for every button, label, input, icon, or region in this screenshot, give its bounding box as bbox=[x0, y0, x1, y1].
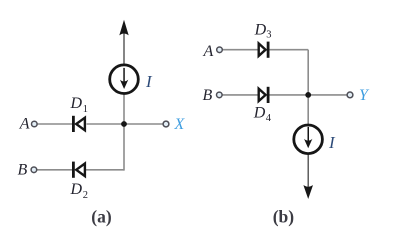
svg-text:(a): (a) bbox=[91, 206, 112, 226]
wire: diode D1 to node, node to output X (a) bbox=[87, 123, 164, 125]
diode D2 bbox=[73, 162, 85, 178]
wire: input A (a) to diode D1 bbox=[37, 123, 72, 125]
svg-text:D: D bbox=[253, 105, 266, 122]
wire: diode D4 to node, node to output Y (b) bbox=[269, 94, 347, 96]
svg-text:2: 2 bbox=[83, 190, 88, 201]
wire: vertical from top arrow down to current source (a) bbox=[123, 32, 125, 65]
diode D3 bbox=[259, 42, 268, 58]
wire: vertical from current source through node X down to B branch corner (a) bbox=[123, 94, 125, 171]
svg-text:1: 1 bbox=[83, 104, 88, 115]
wire: input B (a) to diode D2 bbox=[37, 169, 73, 171]
svg-text:D: D bbox=[254, 22, 267, 39]
svg-text:A: A bbox=[19, 116, 30, 133]
svg-text:3: 3 bbox=[266, 30, 271, 41]
current source I (a) internal arrow bbox=[120, 68, 128, 89]
terminal B (b) bbox=[217, 92, 223, 98]
wire: diode D2 to corner below node (a) bbox=[86, 169, 125, 171]
diode D1 bbox=[73, 116, 85, 132]
arrow to negative supply (b) bbox=[303, 185, 313, 199]
terminal B (a) bbox=[31, 167, 37, 173]
wire: diode D3 to corner (b) bbox=[269, 49, 308, 51]
svg-text:(b): (b) bbox=[273, 206, 295, 226]
node at Y junction (b) bbox=[305, 92, 311, 98]
current source I (a) bbox=[110, 65, 139, 94]
svg-text:B: B bbox=[18, 161, 28, 178]
node at X junction (a) bbox=[121, 121, 127, 127]
terminal A (b) bbox=[217, 47, 223, 53]
svg-text:4: 4 bbox=[266, 113, 272, 124]
wire: input B (b) to diode D4 bbox=[222, 94, 258, 96]
terminal X (a) bbox=[163, 121, 169, 127]
diode D4 bbox=[259, 87, 268, 103]
current source I (b) internal arrow bbox=[304, 127, 312, 148]
svg-text:A: A bbox=[203, 43, 214, 60]
arrow to positive supply (a) bbox=[119, 20, 128, 36]
svg-text:X: X bbox=[174, 116, 186, 133]
svg-text:D: D bbox=[70, 181, 83, 198]
wire: input A (b) to diode D3 bbox=[222, 49, 257, 51]
current source I (b) bbox=[294, 125, 323, 154]
svg-text:B: B bbox=[203, 87, 213, 104]
wire: vertical from A branch corner through node down to current source (b) bbox=[307, 50, 309, 125]
svg-text:D: D bbox=[70, 95, 83, 112]
terminal A (a) bbox=[32, 121, 38, 127]
wire: vertical from current source down to arrow (b) bbox=[307, 155, 309, 187]
terminal Y (b) bbox=[347, 92, 353, 98]
